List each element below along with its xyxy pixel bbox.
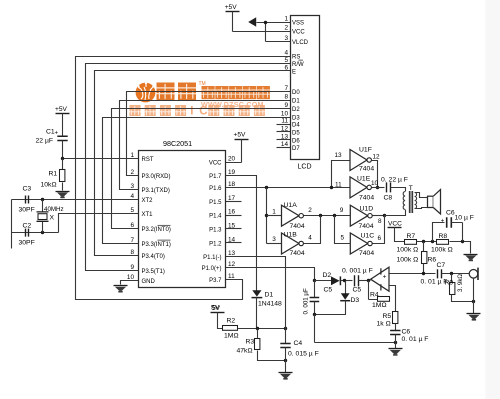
svg-text:2: 2	[308, 207, 312, 214]
wire stub MCU pin16	[226, 215, 242, 217]
svg-text:10kΩ: 10kΩ	[41, 182, 57, 189]
wire op-amp minus input to feedback	[390, 286, 396, 300]
svg-text:D4: D4	[292, 123, 300, 129]
off-page arrow on VSS wire	[248, 17, 256, 26]
svg-text:14: 14	[228, 236, 236, 243]
svg-text:R1: R1	[49, 171, 58, 178]
svg-text:8: 8	[130, 249, 134, 256]
svg-text:R6: R6	[428, 257, 437, 264]
svg-text:+5V: +5V	[234, 132, 247, 139]
wire MCU pin18 P1.6 to U1E input (net 11)	[226, 187, 351, 189]
junction	[461, 240, 464, 243]
diode D2	[331, 276, 340, 285]
junction	[313, 313, 316, 316]
resistor R4 1M feedback	[378, 297, 390, 302]
wire net D2: LCD pin9 to MCU P3.2 pin6	[112, 109, 291, 229]
ground below R1	[56, 192, 70, 198]
svg-text:30PF: 30PF	[19, 240, 35, 247]
junction	[313, 279, 316, 282]
wire D2 cathode to C5	[341, 280, 353, 282]
wire C8 to transformer primary top	[391, 188, 406, 192]
svg-text:U1F: U1F	[359, 146, 372, 153]
svg-text:4: 4	[130, 193, 134, 200]
watermark logo circle	[136, 82, 156, 102]
power VCC for amplifier bias	[388, 220, 403, 227]
wire to U1A input pin1	[267, 215, 282, 217]
svg-text:10: 10	[281, 111, 289, 118]
op-amp U1F 7404 inverter	[350, 150, 371, 171]
svg-text:4: 4	[284, 50, 288, 57]
capacitor C1 22uF electrolytic	[57, 136, 67, 140]
wire U1F input tie (net 13)	[332, 161, 351, 188]
wire stub MCU pin15	[226, 228, 242, 230]
wire +5V to MCU pin20	[226, 140, 242, 163]
svg-text:D2: D2	[292, 107, 300, 113]
svg-text:3: 3	[272, 236, 276, 243]
wire R3 to bottom rail	[258, 351, 286, 361]
svg-text:P1.0(+): P1.0(+)	[202, 266, 222, 272]
svg-text:19: 19	[228, 169, 236, 176]
wire net E: LCD pin6 to MCU P3.4 pin8	[95, 71, 291, 256]
junction	[265, 214, 268, 217]
svg-text:11: 11	[335, 182, 342, 189]
svg-text:5V: 5V	[211, 305, 220, 312]
svg-text:P1.6: P1.6	[209, 186, 222, 192]
svg-text:2: 2	[130, 169, 134, 176]
svg-text:3: 3	[284, 35, 288, 42]
svg-text:D7: D7	[292, 146, 300, 152]
svg-text:P1.7: P1.7	[209, 174, 222, 180]
svg-text:C5: C5	[353, 287, 362, 294]
wire bottom rail	[315, 342, 396, 344]
svg-text:U1C: U1C	[361, 233, 375, 240]
svg-text:7404: 7404	[359, 223, 374, 230]
junction	[330, 186, 333, 189]
wire node down to U1C input pin5	[335, 216, 351, 244]
svg-text:5: 5	[130, 207, 134, 214]
wire LCD VSS with VLCD tie	[257, 23, 291, 42]
op-amp comparator (points left)	[371, 267, 389, 291]
wire C2 line to crystal bottom node	[12, 232, 59, 234]
ground below microphone	[467, 314, 481, 320]
junction	[394, 341, 397, 344]
svg-text:U1A: U1A	[284, 202, 298, 209]
svg-text:XT2: XT2	[142, 198, 154, 204]
junction	[431, 240, 434, 243]
svg-text:VCC: VCC	[209, 161, 222, 167]
wire transformer secondary top to speaker	[415, 193, 428, 198]
svg-text:8: 8	[284, 94, 288, 101]
wire R1 to ground	[62, 183, 64, 191]
svg-text:1MΩ: 1MΩ	[372, 302, 387, 309]
svg-text:3. 9kΩ: 3. 9kΩ	[457, 274, 464, 292]
wire C4 bottom lead	[285, 348, 287, 361]
svg-text:P1.4: P1.4	[209, 214, 222, 220]
wire C5 shunt bottom lead	[314, 302, 316, 315]
junction	[265, 186, 268, 189]
svg-text:+: +	[383, 273, 387, 280]
svg-text:8: 8	[378, 218, 382, 225]
wire U1A output pin2 to U1D input pin9	[304, 215, 351, 217]
svg-text:0. 001 µF: 0. 001 µF	[303, 288, 310, 314]
svg-text:1: 1	[272, 208, 276, 215]
ground below C4	[279, 373, 293, 379]
junction	[284, 359, 287, 362]
crystal X 40MHz	[37, 212, 49, 221]
svg-text:0. 22 µ F: 0. 22 µ F	[381, 177, 408, 184]
svg-text:VCC: VCC	[388, 220, 402, 227]
svg-text:13: 13	[335, 152, 343, 159]
svg-text:47kΩ: 47kΩ	[237, 348, 253, 355]
svg-text:5: 5	[341, 234, 345, 241]
wire +5V to C1	[62, 114, 64, 137]
svg-text:+: +	[55, 131, 59, 137]
junction	[319, 214, 322, 217]
resistor R8 100k	[437, 240, 449, 245]
watermark text 全球最大IC采购网站	[130, 105, 141, 116]
svg-text:12: 12	[228, 261, 236, 268]
svg-text:P3.1(TXD): P3.1(TXD)	[142, 188, 170, 194]
svg-text:20: 20	[228, 156, 236, 163]
power 5V for R2	[211, 305, 225, 313]
wire left rail joining C3 and C2	[11, 200, 13, 249]
wire MCU pin12 P1.0+ to detector node	[226, 268, 315, 281]
svg-text:14: 14	[281, 141, 289, 148]
capacitor C2 30PF	[26, 229, 29, 237]
svg-text:P3.7: P3.7	[209, 278, 222, 284]
wire VCC to R7	[395, 228, 405, 242]
svg-text:D2: D2	[323, 272, 332, 279]
wire D1 to R2 node	[256, 298, 258, 329]
svg-text:P3.4(T0): P3.4(T0)	[142, 254, 165, 260]
wire R9 bottom to mic bottom	[452, 295, 474, 302]
ground below MCU pin10	[114, 286, 128, 292]
wire RST node down to R1	[62, 159, 64, 170]
junction	[61, 157, 64, 160]
svg-text:12: 12	[373, 154, 381, 161]
diode D1 1N4148	[252, 290, 263, 297]
svg-text:0. 015 µ F: 0. 015 µ F	[288, 351, 319, 358]
wire R2 to node and to C4 branch	[238, 328, 286, 330]
wire C5 shunt top lead	[314, 281, 316, 298]
wire U1D output pin8 to junction	[373, 215, 385, 217]
watermark text 维库	[157, 83, 175, 101]
capacitor C6 10uF electrolytic	[447, 217, 452, 228]
svg-text:100k Ω: 100k Ω	[397, 257, 419, 264]
svg-text:T: T	[409, 185, 413, 192]
svg-text:3: 3	[130, 183, 134, 190]
capacitor C8 0.22uF	[387, 182, 391, 192]
wire net R/W: LCD pin5 to MCU P3.5 pin9	[86, 64, 291, 271]
resistor R1 10k	[60, 170, 65, 182]
wire crystal top lead	[42, 200, 44, 212]
svg-text:C5: C5	[324, 287, 333, 294]
wire net D1: LCD pin8 to MCU P3.1 pin3	[120, 101, 291, 190]
svg-text:VSS: VSS	[292, 21, 304, 27]
wire crystal bottom lead	[42, 222, 44, 233]
svg-text:13: 13	[281, 133, 289, 140]
svg-text:P3.0(RXD): P3.0(RXD)	[142, 174, 171, 180]
svg-text:P3.5(T1): P3.5(T1)	[142, 269, 165, 275]
ground right of R8	[464, 255, 478, 261]
svg-text:17: 17	[228, 195, 236, 202]
svg-text:D5: D5	[292, 131, 300, 137]
svg-text:7404: 7404	[290, 223, 305, 230]
svg-text:22 µF: 22 µF	[36, 138, 54, 145]
junction	[284, 327, 287, 330]
wire C1 to RST node	[62, 141, 64, 159]
svg-text:X: X	[50, 215, 55, 222]
watermark text 电子市场网	[202, 86, 215, 99]
svg-text:+5V: +5V	[55, 106, 68, 113]
svg-text:4: 4	[308, 234, 312, 241]
capacitor C3 30PF	[26, 196, 29, 204]
svg-text:11: 11	[228, 273, 235, 280]
svg-text:7: 7	[284, 85, 288, 92]
junction	[367, 279, 370, 282]
wire net D3: LCD pin10 to MCU P3.3 pin7	[103, 118, 291, 244]
junction	[256, 327, 259, 330]
svg-text:R8: R8	[439, 233, 448, 240]
svg-text:0. 01 µ F: 0. 01 µ F	[402, 336, 429, 343]
wire stub LCD D5	[277, 131, 291, 133]
wire junction to transformer primary bottom	[385, 210, 406, 216]
svg-text:10: 10	[371, 180, 379, 187]
svg-text:R9: R9	[445, 279, 454, 286]
power +5V for LCD	[225, 4, 240, 12]
svg-text:C: C	[199, 106, 207, 118]
svg-text:VCC: VCC	[292, 30, 305, 36]
junction	[450, 272, 453, 275]
resistor R3 47k	[255, 339, 260, 350]
svg-text:7404: 7404	[290, 250, 305, 257]
capacitor C5 0.001uF shunt	[310, 298, 320, 302]
svg-text:100k Ω: 100k Ω	[431, 247, 453, 254]
svg-text:1MΩ: 1MΩ	[224, 333, 239, 340]
svg-text:U1D: U1D	[360, 205, 374, 212]
svg-text:XT1: XT1	[142, 212, 154, 218]
ground on bottom rail	[389, 349, 403, 355]
svg-text:R/W: R/W	[292, 62, 304, 68]
svg-text:R4: R4	[370, 292, 379, 299]
wire crystal bottom to MCU XT1 pin5	[59, 214, 139, 233]
wire 5V to R2	[218, 313, 223, 329]
svg-text:40MHz: 40MHz	[44, 206, 64, 213]
wire op-amp plus input line	[390, 273, 436, 275]
svg-text:U1B: U1B	[284, 231, 298, 238]
wire node to R6	[423, 242, 425, 252]
wire R8 to ground corner	[450, 242, 471, 254]
capacitor C5 0.001uF coupling	[355, 275, 359, 286]
wire detector node to D2	[315, 280, 332, 282]
junction	[422, 272, 425, 275]
svg-text:16: 16	[228, 209, 236, 216]
svg-text:6: 6	[284, 65, 288, 72]
svg-text:15: 15	[228, 222, 236, 229]
svg-text:10 µ F: 10 µ F	[455, 215, 474, 222]
svg-text:I: I	[190, 106, 193, 118]
svg-text:C8: C8	[384, 195, 393, 202]
svg-text:0. 001 µ F: 0. 001 µ F	[342, 268, 373, 275]
junction	[472, 300, 475, 303]
svg-text:2: 2	[284, 25, 288, 32]
wire R6 to plus-input line	[423, 264, 425, 274]
svg-text:P1.5: P1.5	[209, 200, 222, 206]
svg-text:D0: D0	[292, 90, 300, 96]
svg-text:C4: C4	[294, 340, 303, 347]
svg-text:R3: R3	[246, 339, 255, 346]
svg-text:D1: D1	[265, 292, 274, 299]
svg-text:98C2051: 98C2051	[163, 139, 192, 148]
svg-text:1: 1	[130, 152, 134, 159]
resistor R9 3.9k	[450, 283, 455, 295]
wire U1F output pin12 down to U1E output	[372, 161, 378, 188]
svg-text:C7: C7	[437, 262, 446, 269]
svg-text:LCD: LCD	[298, 164, 312, 171]
power +5V for reset circuit	[55, 106, 70, 114]
wire stub MCU pin17	[226, 201, 242, 203]
junction	[422, 240, 425, 243]
op-amp U1D 7404 inverter	[350, 205, 372, 226]
svg-text:R5: R5	[383, 313, 392, 320]
wire node down to bottom rail	[314, 315, 316, 343]
svg-text:12: 12	[281, 126, 289, 133]
svg-text:E: E	[292, 69, 296, 75]
junction	[343, 279, 346, 282]
wire C6 left leg	[433, 223, 445, 242]
svg-text:100k Ω: 100k Ω	[397, 247, 419, 254]
wire RST node to MCU pin1	[63, 158, 139, 160]
right page-edge gray strip	[486, 0, 500, 399]
svg-text:1k Ω: 1k Ω	[377, 321, 391, 328]
wire R5 to C6	[395, 324, 397, 331]
wire MCU pin13 P1.1- to R2 node	[226, 257, 286, 329]
op-amp U1A 7404 inverter	[282, 205, 304, 226]
svg-text:9: 9	[340, 207, 344, 214]
svg-text:R2: R2	[227, 318, 236, 325]
wire U1C output pin6 up to junction	[373, 216, 385, 244]
wire stub LCD D7	[277, 147, 291, 149]
svg-text:13: 13	[228, 250, 236, 257]
wire net RS: LCD pin4 to MCU P3.7 pin11 (around bottom)	[76, 57, 291, 300]
junction	[383, 214, 386, 217]
junction	[41, 231, 44, 234]
op-amp U1C 7404 inverter	[350, 233, 372, 254]
svg-text:0. 01 µ F: 0. 01 µ F	[421, 279, 448, 286]
svg-text:RST: RST	[142, 157, 154, 163]
op-amp U1B 7404 inverter	[282, 233, 304, 254]
svg-text:D6: D6	[292, 138, 300, 144]
resistor R2 1M	[223, 326, 238, 331]
wire mic down	[473, 279, 475, 302]
resistor R7 100k	[405, 240, 417, 245]
svg-text:7: 7	[130, 237, 134, 244]
svg-text:6: 6	[130, 222, 134, 229]
svg-text:VLCD: VLCD	[292, 40, 309, 46]
resistor R6 100k	[422, 252, 427, 264]
wire to U1B input pin3	[267, 243, 282, 245]
wire D3 bottom to node	[315, 301, 346, 315]
svg-text:1N4148: 1N4148	[258, 301, 282, 308]
wire rail to ground	[285, 361, 287, 373]
wire R7 to R8	[417, 241, 437, 243]
svg-text:P3.2(INT0): P3.2(INT0)	[142, 227, 171, 233]
svg-text:18: 18	[228, 181, 236, 188]
transformer T	[403, 191, 416, 213]
svg-text:P1.1(-): P1.1(-)	[203, 255, 221, 261]
wire node to R9	[451, 274, 453, 283]
svg-text:RS: RS	[292, 55, 300, 61]
svg-text:P1.2: P1.2	[209, 241, 222, 247]
capacitor C6 0.01uF	[390, 331, 400, 335]
svg-text:C6: C6	[402, 329, 411, 336]
wire R4 to output node	[369, 281, 378, 300]
svg-text:1: 1	[284, 16, 288, 23]
wire MCU GND pin10	[121, 281, 139, 285]
wire C7 to microphone	[442, 273, 470, 275]
wire +5V to LCD VCC pin2	[233, 12, 291, 32]
svg-text:11: 11	[281, 118, 288, 125]
wire D3 top lead	[345, 281, 347, 294]
wire stub MCU pin14	[226, 242, 242, 244]
wire to mic ground	[473, 302, 475, 314]
diode D3	[340, 293, 350, 300]
svg-text:9: 9	[130, 264, 134, 271]
svg-text:C3: C3	[23, 186, 32, 193]
junction	[376, 186, 379, 189]
svg-text:R7: R7	[407, 233, 416, 240]
svg-text:30PF: 30PF	[19, 207, 35, 214]
speaker	[428, 190, 441, 214]
wire C6 to rail	[395, 335, 397, 343]
svg-text:D3: D3	[351, 297, 360, 304]
wire transformer secondary bottom to speaker	[415, 208, 428, 209]
svg-text:+: +	[441, 218, 445, 224]
wire branch down to U1A/U1B inputs	[266, 188, 268, 244]
svg-text:6: 6	[378, 235, 382, 242]
wire stub LCD D6	[277, 139, 291, 141]
IC U2 98C2051 microcontroller box	[139, 151, 226, 288]
svg-text:C2: C2	[23, 223, 32, 230]
op-amp U1E 7404 inverter	[350, 177, 371, 198]
wire node to R3	[257, 329, 259, 339]
wire net D0: LCD pin7 to MCU P3.0 pin2	[127, 92, 291, 176]
wire C4 top lead	[285, 329, 287, 344]
svg-text:10: 10	[127, 274, 135, 281]
power +5V for MCU VCC	[234, 132, 249, 140]
svg-text:GND: GND	[142, 279, 156, 285]
svg-text:C1: C1	[46, 129, 55, 136]
svg-text:+5V: +5V	[225, 4, 238, 11]
junction	[333, 214, 336, 217]
wire stub LCD D4	[277, 124, 291, 126]
wire MCU pin19 P1.7 down to D1	[226, 176, 257, 291]
wire U1E output pin10 to C8	[372, 187, 385, 189]
capacitor C7 0.01uF	[438, 269, 442, 278]
junction	[41, 198, 44, 201]
svg-text:7404: 7404	[359, 250, 374, 257]
svg-text:P1.3: P1.3	[209, 227, 222, 233]
LCD module box	[291, 16, 320, 160]
wire rail to ground	[395, 343, 397, 349]
svg-text:D3: D3	[292, 116, 300, 122]
capacitor C4 0.015uF	[280, 344, 290, 348]
svg-text:P3.3(INT1): P3.3(INT1)	[142, 242, 171, 248]
wire feedback node to R5	[395, 300, 397, 312]
svg-text:7404: 7404	[359, 166, 374, 173]
microphone	[469, 268, 478, 280]
junction	[264, 21, 267, 24]
